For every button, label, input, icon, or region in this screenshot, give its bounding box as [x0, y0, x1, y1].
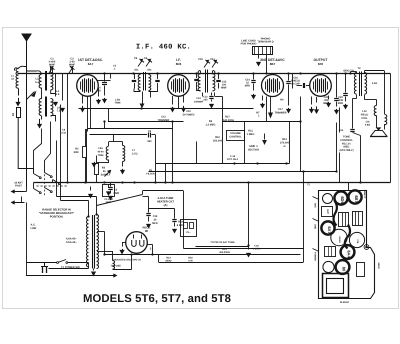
chassis wire squiggle 2 [345, 225, 350, 249]
svg-text:450Ω TO: 450Ω TO [343, 70, 354, 73]
svg-text:GND: GND [314, 224, 317, 229]
svg-text:TRIM: TRIM [115, 102, 121, 105]
wire box top y248 [184, 248, 304, 250]
coil L7 oscillator winding 2 [123, 146, 125, 162]
svg-text:MMF: MMF [221, 87, 227, 90]
coil L2 primary [39, 75, 41, 89]
wire IF1 primary top [140, 73, 142, 76]
wire trafo primary top [356, 72, 358, 74]
wire right edge drop [390, 74, 392, 183]
wire trafo secondary bottom [364, 95, 366, 100]
svg-text:.05a: .05a [147, 69, 152, 72]
wire tone R11 drop [339, 108, 341, 133]
wire gnd drop [21, 197, 23, 203]
switch contacts [34, 174, 40, 178]
IF2 primary coil [198, 71, 200, 91]
svg-text:GANG: GANG [338, 236, 341, 243]
wire V2 grid top [178, 74, 180, 75]
svg-text:DOT 1B-2: DOT 1B-2 [227, 158, 239, 161]
svg-text:C6: C6 [134, 57, 138, 60]
wire trafo secondary taps [97, 231, 105, 233]
arrow gnd post [14, 202, 24, 204]
transformer core L4/L5 [45, 97, 47, 117]
wire V3 cathode [262, 96, 264, 101]
ground rect left [122, 243, 124, 247]
capacitor C9 550 MMF [90, 134, 148, 136]
chassis leader lines [313, 197, 320, 200]
chassis tube 6A4 [341, 245, 355, 259]
svg-text:POSITION.: POSITION. [50, 216, 64, 219]
svg-text:0.8Ω: 0.8Ω [365, 124, 370, 127]
svg-text:W-54267: W-54267 [340, 301, 350, 304]
chassis tube 6D6 [334, 191, 347, 204]
speaker [375, 130, 382, 132]
wire L5 bottom [51, 116, 56, 122]
svg-text:MODELS 5T6, 5T7, and 5T8: MODELS 5T6, 5T7, and 5T8 [83, 293, 231, 305]
wire trafo secondary top to right [364, 71, 366, 73]
antenna [22, 34, 31, 41]
diode load parts right of V3 [288, 74, 290, 81]
svg-text:TRIMMER: TRIMMER [274, 112, 286, 115]
capacitor C13 [211, 93, 213, 96]
svg-text:DIRECT: DIRECT [363, 190, 366, 199]
svg-text:R13: R13 [339, 129, 344, 132]
coil L4 primary [39, 99, 41, 116]
wire osc coil bottoms [108, 160, 110, 163]
arrow in grid box [264, 134, 266, 140]
chassis tube 6A7 [321, 221, 334, 234]
svg-text:6A4: 6A4 [347, 250, 352, 258]
svg-text:1.2 MEG: 1.2 MEG [206, 123, 216, 126]
wire L2 bottom to L4 top [41, 88, 43, 99]
IF2 core [205, 70, 207, 93]
svg-text:5 W: 5 W [188, 260, 193, 263]
svg-text:5.4: 5.4 [35, 81, 39, 84]
trimmer C6 [138, 60, 142, 66]
svg-text:50M: 50M [74, 151, 79, 154]
svg-text:SECTION: SECTION [248, 148, 259, 151]
svg-text:TO PIN OF 6A7 TUBE: TO PIN OF 6A7 TUBE [210, 241, 235, 244]
svg-text:"STANDARD BROADCAST": "STANDARD BROADCAST" [39, 212, 75, 215]
ground mid x90 [90, 187, 92, 191]
gang capacitor arrow C1 [55, 74, 57, 97]
wire heater detail top [143, 190, 184, 192]
chassis dot terminal [364, 245, 369, 250]
wire L3 bottom [51, 90, 56, 94]
svg-text:550: 550 [147, 140, 152, 143]
wire V3 grid top [272, 73, 274, 76]
wire osc coil tops [108, 142, 110, 147]
ground L4 [39, 119, 41, 125]
svg-text:6A7: 6A7 [327, 226, 332, 234]
capacitor C16b [174, 209, 176, 219]
wire L4 bottom arrow [41, 116, 43, 120]
svg-text:VOL: VOL [356, 239, 359, 244]
filament winding 5V [113, 261, 115, 270]
wire vertical x165 [165, 164, 167, 183]
svg-text:TERM BAR D: TERM BAR D [257, 41, 273, 44]
wire IF1 secondary top [148, 73, 150, 76]
svg-text:6D6: 6D6 [340, 196, 345, 204]
wire ac line down [26, 203, 28, 276]
wire switch riser x56 [56, 141, 58, 177]
wire V4 grid pins [311, 97, 313, 105]
resistor R15 line [196, 246, 249, 248]
svg-text:8 MFD: 8 MFD [253, 248, 260, 251]
arrow ant post [14, 191, 24, 193]
capacitor C4 screen bypass [104, 74, 106, 82]
svg-text:RANGE SELECTOR IN: RANGE SELECTOR IN [42, 209, 71, 212]
IF2 secondary coil [213, 71, 215, 91]
svg-text:6F6: 6F6 [318, 62, 324, 66]
capacitor C5 left of IF1 [134, 74, 136, 80]
capacitor C18 [248, 182, 250, 247]
svg-text:0.2Ω: 0.2Ω [372, 82, 377, 85]
svg-text:1.5: 1.5 [56, 93, 60, 96]
svg-text:CONTROL: CONTROL [229, 135, 242, 138]
svg-text:100MMF: 100MMF [194, 100, 204, 103]
capacitor left of IF2 [196, 74, 198, 79]
svg-text:FILTER: FILTER [146, 172, 154, 175]
trimmer C10 [204, 61, 208, 67]
wire trafo primary bottom [356, 95, 358, 99]
chassis IF can 1 [339, 213, 349, 227]
svg-text:MOUNTED ON (TOP) CH: MOUNTED ON (TOP) CH [114, 259, 142, 262]
wire L3 top to bus [50, 67, 52, 73]
wire antenna lead [26, 41, 28, 187]
wire IF1 down leads [142, 92, 144, 104]
wire L2 top hook [27, 71, 42, 74]
wire box bottom y261 [159, 262, 304, 264]
resistor R3 B+ supply [95, 164, 99, 175]
svg-text:6D6: 6D6 [176, 62, 182, 66]
chassis ant coil box [322, 207, 333, 217]
chassis resistor block [325, 247, 336, 257]
svg-text:TO FUSE: TO FUSE [111, 265, 122, 268]
chassis outline [319, 191, 375, 299]
wire ant drop [26, 187, 28, 192]
wire V1 grid top [87, 74, 89, 75]
wire top bus [18, 73, 391, 75]
wire dial lamp leads [56, 177, 58, 197]
wire speaker leads [376, 116, 378, 128]
wire phono to bus [258, 55, 260, 59]
power transformer T1 primary [87, 217, 89, 267]
svg-text:C11: C11 [210, 58, 215, 61]
chassis gang condenser [331, 229, 347, 245]
wire left branch to switch [27, 92, 35, 100]
capacitor C17 trimmer [270, 97, 272, 108]
svg-text:50-70MFD: 50-70MFD [183, 113, 195, 116]
wire vertical x336 down [336, 123, 338, 172]
wire V1 stem down [86, 129, 88, 183]
phono terminal strip [253, 47, 273, 55]
wire heater vertical x183 [183, 191, 185, 249]
svg-text:3-18: 3-18 [61, 132, 66, 135]
wire bus y108 [79, 108, 254, 110]
IF1 primary coil [138, 75, 140, 91]
wire L1 top to bus [18, 66, 27, 68]
svg-text:POST: POST [15, 185, 22, 188]
svg-text:ANT: ANT [326, 209, 329, 214]
svg-text:I.F. 460 KC.: I.F. 460 KC. [136, 44, 191, 52]
wire switch riser x60 [60, 105, 62, 180]
chassis speaker plug [357, 263, 365, 277]
svg-text:MFD: MFD [152, 222, 158, 225]
wire IF2 sec down [214, 93, 216, 97]
svg-text:80: 80 [145, 229, 149, 233]
svg-text:.05a: .05a [134, 69, 139, 72]
wire bus y128 [87, 128, 173, 130]
svg-text:1 MEG: 1 MEG [247, 133, 255, 136]
capacitor C7 right of IF1 [157, 74, 159, 80]
chassis circle right [349, 232, 364, 247]
wire bus y163 [156, 163, 290, 165]
svg-text:6B7: 6B7 [270, 62, 276, 66]
svg-text:FOR PHONO: FOR PHONO [241, 43, 257, 46]
wire filament to rectifier [112, 268, 114, 270]
pot arrow mid [105, 171, 111, 177]
capacitor C15 [148, 197, 150, 213]
wire box right x303 [303, 172, 305, 263]
ground V1 side [98, 89, 100, 97]
svg-text:80: 80 [342, 267, 347, 272]
svg-text:POWER SW.: POWER SW. [65, 266, 81, 269]
resistor R2 [83, 147, 87, 158]
svg-text:LINE: LINE [31, 227, 37, 230]
trimmer C11 [212, 61, 216, 67]
svg-text:C10: C10 [198, 58, 203, 61]
plug [44, 263, 46, 267]
svg-text:(5T8 ONLY): (5T8 ONLY) [340, 149, 354, 152]
wire vertical x148 [143, 196, 149, 198]
coil L3 secondary [51, 73, 54, 91]
wire V4 plate to bus [320, 74, 322, 75]
wire R1 down to switch [18, 118, 33, 174]
wire bus y121 [108, 121, 184, 123]
IF1 core [143, 72, 145, 91]
svg-text:6A7: 6A7 [88, 62, 94, 66]
wire vertical x300 [300, 97, 302, 172]
chassis tube 80 [336, 260, 350, 274]
chassis tube socket empty 1 [323, 194, 333, 204]
ground below L1 [18, 98, 20, 103]
coil L5 secondary [51, 99, 54, 117]
svg-text:2.7Ω: 2.7Ω [132, 152, 137, 155]
ground V2 bold [183, 96, 185, 103]
wire rect to bus [147, 244, 152, 246]
transformer core L2/L3 [45, 71, 47, 91]
svg-text:C8: C8 [144, 57, 148, 60]
wire vertical x222 R17 [222, 97, 224, 164]
junction dots [103, 72, 105, 74]
trimmer C8 [146, 60, 150, 66]
wire vertical x172 [172, 122, 174, 183]
coupling capacitor C19 [297, 85, 303, 87]
svg-text:*1: *1 [307, 183, 310, 187]
wire V1 plate [110, 74, 112, 79]
wire switch to coils [34, 129, 42, 174]
svg-text:Ω: Ω [283, 145, 285, 148]
chassis IF can 2 [353, 212, 363, 226]
svg-text:250,000: 250,000 [213, 139, 223, 142]
wire switch bottoms [33, 183, 35, 189]
gang capacitor arrow C2 [62, 74, 64, 101]
wire trafo primary bottom to switch [88, 263, 90, 265]
wire heater link y208 [149, 208, 175, 210]
wire IF2 tops [197, 73, 201, 75]
svg-text:6B7: 6B7 [354, 195, 359, 203]
switch dashed line [37, 185, 69, 187]
wire heater bus y254 [105, 254, 301, 256]
svg-text:850Ω: 850Ω [166, 260, 172, 263]
wire vertical x67 [67, 74, 69, 183]
wire bottom bus power [26, 275, 110, 277]
wire L1 bottom [18, 89, 20, 96]
svg-text:350,000Ω: 350,000Ω [219, 251, 230, 254]
svg-text:SPKR: SPKR [377, 262, 380, 268]
svg-text:POWER: POWER [314, 252, 317, 261]
volume control box [227, 131, 245, 141]
wire V1 cathode pins [82, 96, 84, 104]
wire IF2 down leads [202, 93, 204, 97]
svg-text:TRIM: TRIM [98, 154, 104, 157]
capacitor C23 below [110, 183, 112, 187]
wire trafo bottom arrow [93, 269, 95, 271]
chassis socket empty 2 [323, 261, 334, 272]
wire vertical x155 [155, 135, 157, 183]
wire bus y171 [149, 171, 337, 173]
svg-text:250: 250 [204, 99, 209, 102]
capacitor osc grid [104, 122, 106, 130]
wire bus y182 [34, 182, 391, 184]
svg-text:MFD: MFD [323, 102, 329, 105]
output transformer secondary [365, 73, 367, 95]
wire x345 drop [345, 74, 347, 93]
wire tone control drop [360, 136, 362, 183]
svg-text:P.L.: P.L. [186, 231, 190, 234]
svg-text:ANT.: ANT. [314, 203, 317, 208]
chassis wire squiggle 1 [334, 201, 337, 226]
chassis tube 6B7 [348, 190, 361, 203]
resistor R1 [17, 108, 21, 118]
power transformer secondary [97, 215, 99, 269]
detector grid box [244, 122, 246, 164]
svg-text:MFD: MFD [245, 85, 251, 88]
wire horizontal y121 right [223, 121, 301, 123]
coil L1 antenna choke [14, 68, 18, 71]
pilot light box [181, 220, 197, 237]
IF1 secondary coil [149, 75, 151, 91]
voice coil [385, 115, 387, 125]
output transformer core [359, 72, 361, 97]
svg-text:COIL: COIL [361, 117, 368, 120]
wire trafo top leads [88, 201, 90, 217]
field coil L12 [374, 106, 376, 116]
svg-text:R1: R1 [12, 112, 15, 116]
svg-text:MFD: MFD [338, 102, 344, 105]
chassis power transformer square [323, 274, 349, 298]
wire V2 cathode pins [172, 96, 174, 105]
capacitor C3 box [103, 185, 115, 197]
power switch [26, 262, 57, 264]
power transformer core [92, 215, 94, 269]
output transformer T2 primary [354, 73, 356, 95]
wire into chassis [348, 183, 350, 191]
wire vertical x196 [196, 142, 198, 164]
capacitor C20 tone [336, 74, 338, 98]
coil L7 oscillator winding 1 [106, 147, 108, 161]
capacitor C12 right of IF2 [218, 74, 220, 80]
svg-text:6.5A-25~: 6.5A-25~ [66, 241, 77, 244]
svg-text:(A): (A) [164, 204, 168, 207]
svg-text:6.6A-60~: 6.6A-60~ [66, 238, 77, 241]
